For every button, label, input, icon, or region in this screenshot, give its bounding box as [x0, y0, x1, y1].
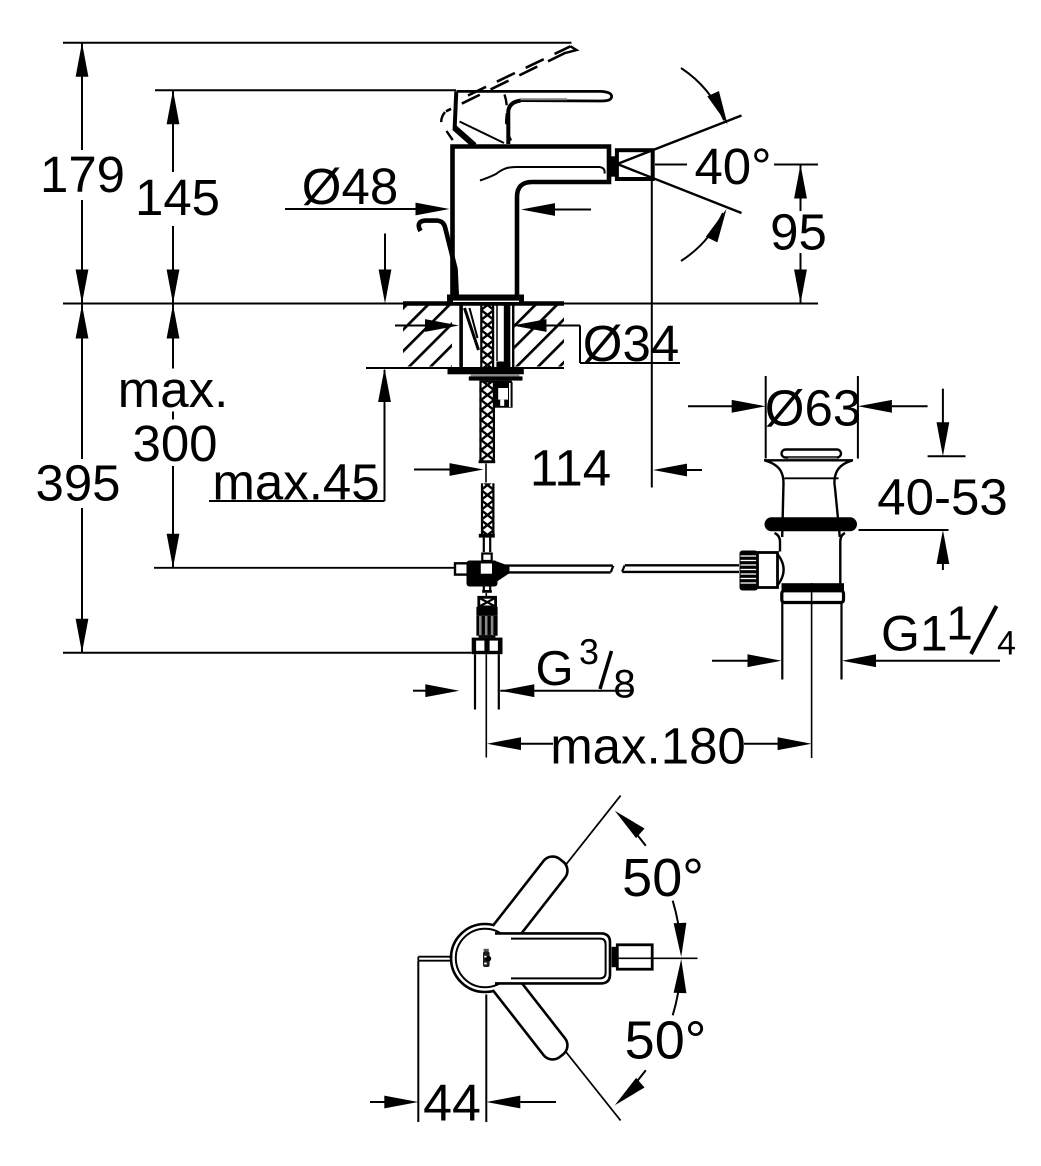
label G1 1/4 numerator 1: [950, 606, 971, 639]
handle base slant: [454, 128, 474, 146]
tailpipe walls: [781, 603, 783, 680]
upper 50deg ray: [566, 796, 621, 865]
arrow 395 bottom: [76, 619, 89, 653]
svg-text:44: 44: [423, 1075, 481, 1133]
extension line top of faucet (179 datum): [63, 42, 572, 44]
upper 50deg arc: [673, 901, 681, 946]
countertop top line: [63, 303, 818, 305]
dashed handle raised: bottom edge: [446, 53, 566, 112]
connector tube: [483, 538, 485, 552]
rod plane line (max300 datum): [154, 567, 455, 569]
mounting washer: [448, 369, 524, 374]
faucet body outline: [453, 147, 610, 299]
horizontal rod segment A: [505, 564, 613, 566]
svg-text:50°: 50°: [625, 1011, 707, 1071]
step: [479, 636, 496, 638]
label G1 1/4 denominator 4: [998, 631, 1015, 654]
svg-text:Ø34: Ø34: [583, 315, 679, 372]
black column in counter: [504, 305, 511, 368]
dashed handle tip: [566, 46, 577, 53]
handle base left edge: [455, 91, 457, 129]
aerator gap top view: [612, 947, 617, 967]
coupler band: [476, 607, 497, 615]
svg-text:40-53: 40-53: [877, 469, 1007, 526]
flange brim: [764, 459, 853, 461]
body circle outer: [451, 924, 519, 992]
spout centerline: [614, 957, 698, 959]
bottom datum line (395): [63, 652, 472, 654]
grohe logo: [483, 949, 491, 967]
max45 upper stem: [384, 234, 386, 273]
hose end bar: [479, 460, 496, 463]
upper 40deg ray: [619, 116, 742, 164]
arrow 145 top: [167, 90, 180, 124]
svg-text:300: 300: [132, 415, 217, 472]
drain push cap: [782, 450, 842, 458]
arrow 179 top: [76, 43, 89, 77]
hose centerline gap: [485, 464, 487, 483]
flange right side: [834, 460, 852, 537]
spout inner line: [480, 167, 605, 181]
dimension Ø63: [688, 376, 928, 459]
braided hose below counter: [479, 382, 495, 460]
body shoulder left: [775, 533, 781, 552]
aerator gap bar: [611, 156, 617, 176]
dashed handle raised: top edge: [468, 46, 571, 95]
svg-text:max.180: max.180: [550, 718, 746, 775]
dimension 95: [800, 165, 802, 304]
waste body bottom bar: [782, 583, 845, 590]
dimension Ø34: [395, 326, 680, 364]
dimension 44: [370, 961, 556, 1122]
tailpipe centerline: [811, 583, 813, 758]
braid coupler box: [479, 597, 496, 607]
tube end cap: [482, 590, 492, 593]
dimension 179 line: [81, 43, 83, 150]
body bump: [778, 555, 784, 586]
dimension 40-53: [859, 389, 966, 570]
knurled knob: [740, 551, 759, 591]
svg-text:Ø48: Ø48: [302, 158, 398, 215]
knob collar: [758, 553, 778, 588]
arrow max300 top: [167, 305, 180, 339]
centerline bit: [485, 593, 487, 598]
countertop bottom line: [366, 367, 564, 369]
svg-text:114: 114: [530, 440, 611, 497]
extension line top of handle (145 datum): [155, 89, 456, 91]
upper 40deg arc: [681, 68, 724, 120]
label G3/8 numerator 3: [580, 639, 597, 664]
svg-text:G: G: [536, 642, 574, 696]
svg-text:395: 395: [35, 455, 120, 512]
hex union nut G3/8: [472, 638, 503, 655]
handle top view lower: [493, 973, 572, 1064]
svg-text:50°: 50°: [622, 848, 704, 908]
dimension G3/8: [413, 690, 631, 692]
lower 50deg ray: [566, 1052, 621, 1121]
handle blade: [457, 91, 612, 101]
hole right wall: [512, 305, 514, 368]
mounting nut: [469, 376, 523, 380]
dimension G1 1/4: [712, 660, 1000, 662]
svg-text:179: 179: [40, 146, 125, 203]
dimension Ø48: [285, 208, 591, 211]
dimension 395 line: [81, 305, 83, 460]
extension line from aerator down: [651, 179, 653, 488]
dimension 40deg leader: [619, 68, 819, 261]
side outlet fitting: [495, 382, 513, 408]
arrow max45 down onto counter: [379, 270, 392, 304]
svg-text:Ø63: Ø63: [765, 380, 861, 437]
hatch right block: [514, 305, 564, 367]
arrows: verticals: [76, 43, 180, 653]
arrow 145 bottom: [167, 270, 180, 304]
handle blade underside gray: [520, 98, 567, 100]
label G3/8 denominator 8: [615, 670, 634, 698]
svg-text:95: 95: [770, 204, 827, 261]
tee left white box: [455, 563, 468, 574]
handle base inner line: [460, 122, 505, 144]
cap shadow line: [788, 457, 837, 459]
arrow 395 top: [76, 305, 89, 339]
dimension max.180: [521, 743, 778, 745]
black bottom bar in hole: [496, 362, 510, 368]
svg-text:145: 145: [135, 169, 220, 226]
handle front edge: [508, 101, 520, 144]
dimension max300 line: [172, 305, 174, 369]
supply pipe walls: [474, 654, 476, 709]
aerator top view: [617, 945, 652, 969]
faucet base plate: [447, 295, 524, 304]
hole left wall: [459, 305, 463, 368]
flange left side: [765, 460, 784, 537]
lower 50deg arc: [673, 970, 681, 1015]
dimension max.45: [209, 370, 385, 501]
arrow max300 bottom: [167, 534, 180, 568]
svg-text:G1: G1: [881, 606, 948, 662]
small flange: [482, 554, 491, 562]
o-ring rim: [765, 517, 858, 531]
tube below tee: [483, 587, 485, 591]
tee body: [467, 561, 498, 587]
horizontal rod segment B: [625, 564, 739, 566]
body circle inner: [456, 929, 514, 987]
tee nose: [497, 562, 510, 582]
lower 40deg ray: [619, 165, 742, 214]
braided hose in counter: [480, 305, 494, 368]
slot thin line: [496, 305, 498, 361]
gray gasket: [471, 374, 520, 376]
dashed handle base right: [505, 95, 512, 141]
knurled nut: [476, 615, 497, 636]
hose cap bar: [479, 534, 495, 538]
arrow 179 bottom: [76, 270, 89, 304]
aerator: [617, 150, 653, 179]
pop-up rod stub top view: [418, 957, 452, 961]
slip ring: [782, 591, 844, 603]
dashed handle base left: [441, 112, 455, 144]
hatch left block: [403, 305, 452, 367]
lower 40deg arc: [681, 213, 723, 261]
pop-up lever rod: [419, 221, 457, 297]
arrow max45 up: [378, 368, 391, 402]
body shoulder right: [840, 533, 845, 584]
dimension 114: [414, 179, 702, 488]
spout inner outline: [511, 939, 606, 979]
spout top view: [497, 933, 610, 983]
braided hose second section: [481, 483, 494, 534]
svg-text:40°: 40°: [694, 138, 771, 195]
arc arrowheads: [707, 91, 733, 127]
supply pipe centerline: [485, 654, 487, 757]
handle top view upper: [493, 852, 572, 943]
svg-text:max.: max.: [118, 361, 229, 418]
flange inner line: [785, 477, 839, 479]
svg-text:max.45: max.45: [212, 454, 379, 511]
dimension 145 line: [172, 90, 174, 172]
shank diagonal lines: [465, 308, 479, 350]
